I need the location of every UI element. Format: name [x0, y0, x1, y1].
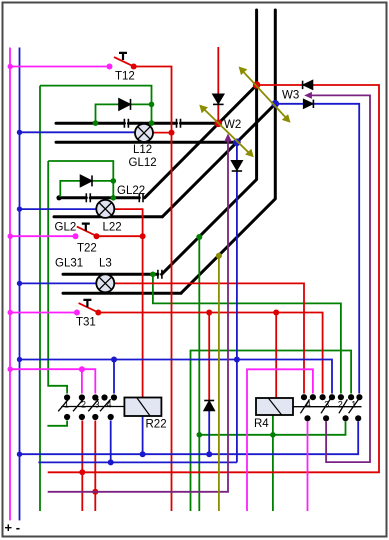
svg-text:2: 2: [81, 400, 86, 410]
svg-text:GL31: GL31: [55, 258, 83, 270]
svg-text:GL2: GL2: [55, 222, 77, 234]
svg-text:L3: L3: [99, 258, 112, 270]
svg-text:1: 1: [64, 400, 69, 410]
svg-text:3: 3: [324, 399, 329, 409]
svg-text:R22: R22: [146, 419, 167, 431]
svg-text:W3: W3: [282, 90, 299, 102]
svg-text:T22: T22: [77, 243, 97, 255]
svg-text:R4: R4: [254, 418, 269, 430]
svg-text:3: 3: [95, 400, 100, 410]
svg-text:L12: L12: [133, 144, 152, 156]
svg-text:W2: W2: [224, 119, 241, 131]
svg-text:L22: L22: [103, 222, 122, 234]
svg-text:1: 1: [351, 399, 356, 409]
svg-text:T12: T12: [115, 71, 135, 83]
svg-text:4: 4: [306, 399, 311, 409]
svg-text:+ -: + -: [5, 520, 21, 535]
svg-text:T31: T31: [76, 317, 96, 329]
svg-text:2: 2: [338, 399, 343, 409]
svg-text:4: 4: [107, 400, 112, 410]
svg-text:GL22: GL22: [117, 185, 145, 197]
svg-text:GL12: GL12: [129, 157, 157, 169]
